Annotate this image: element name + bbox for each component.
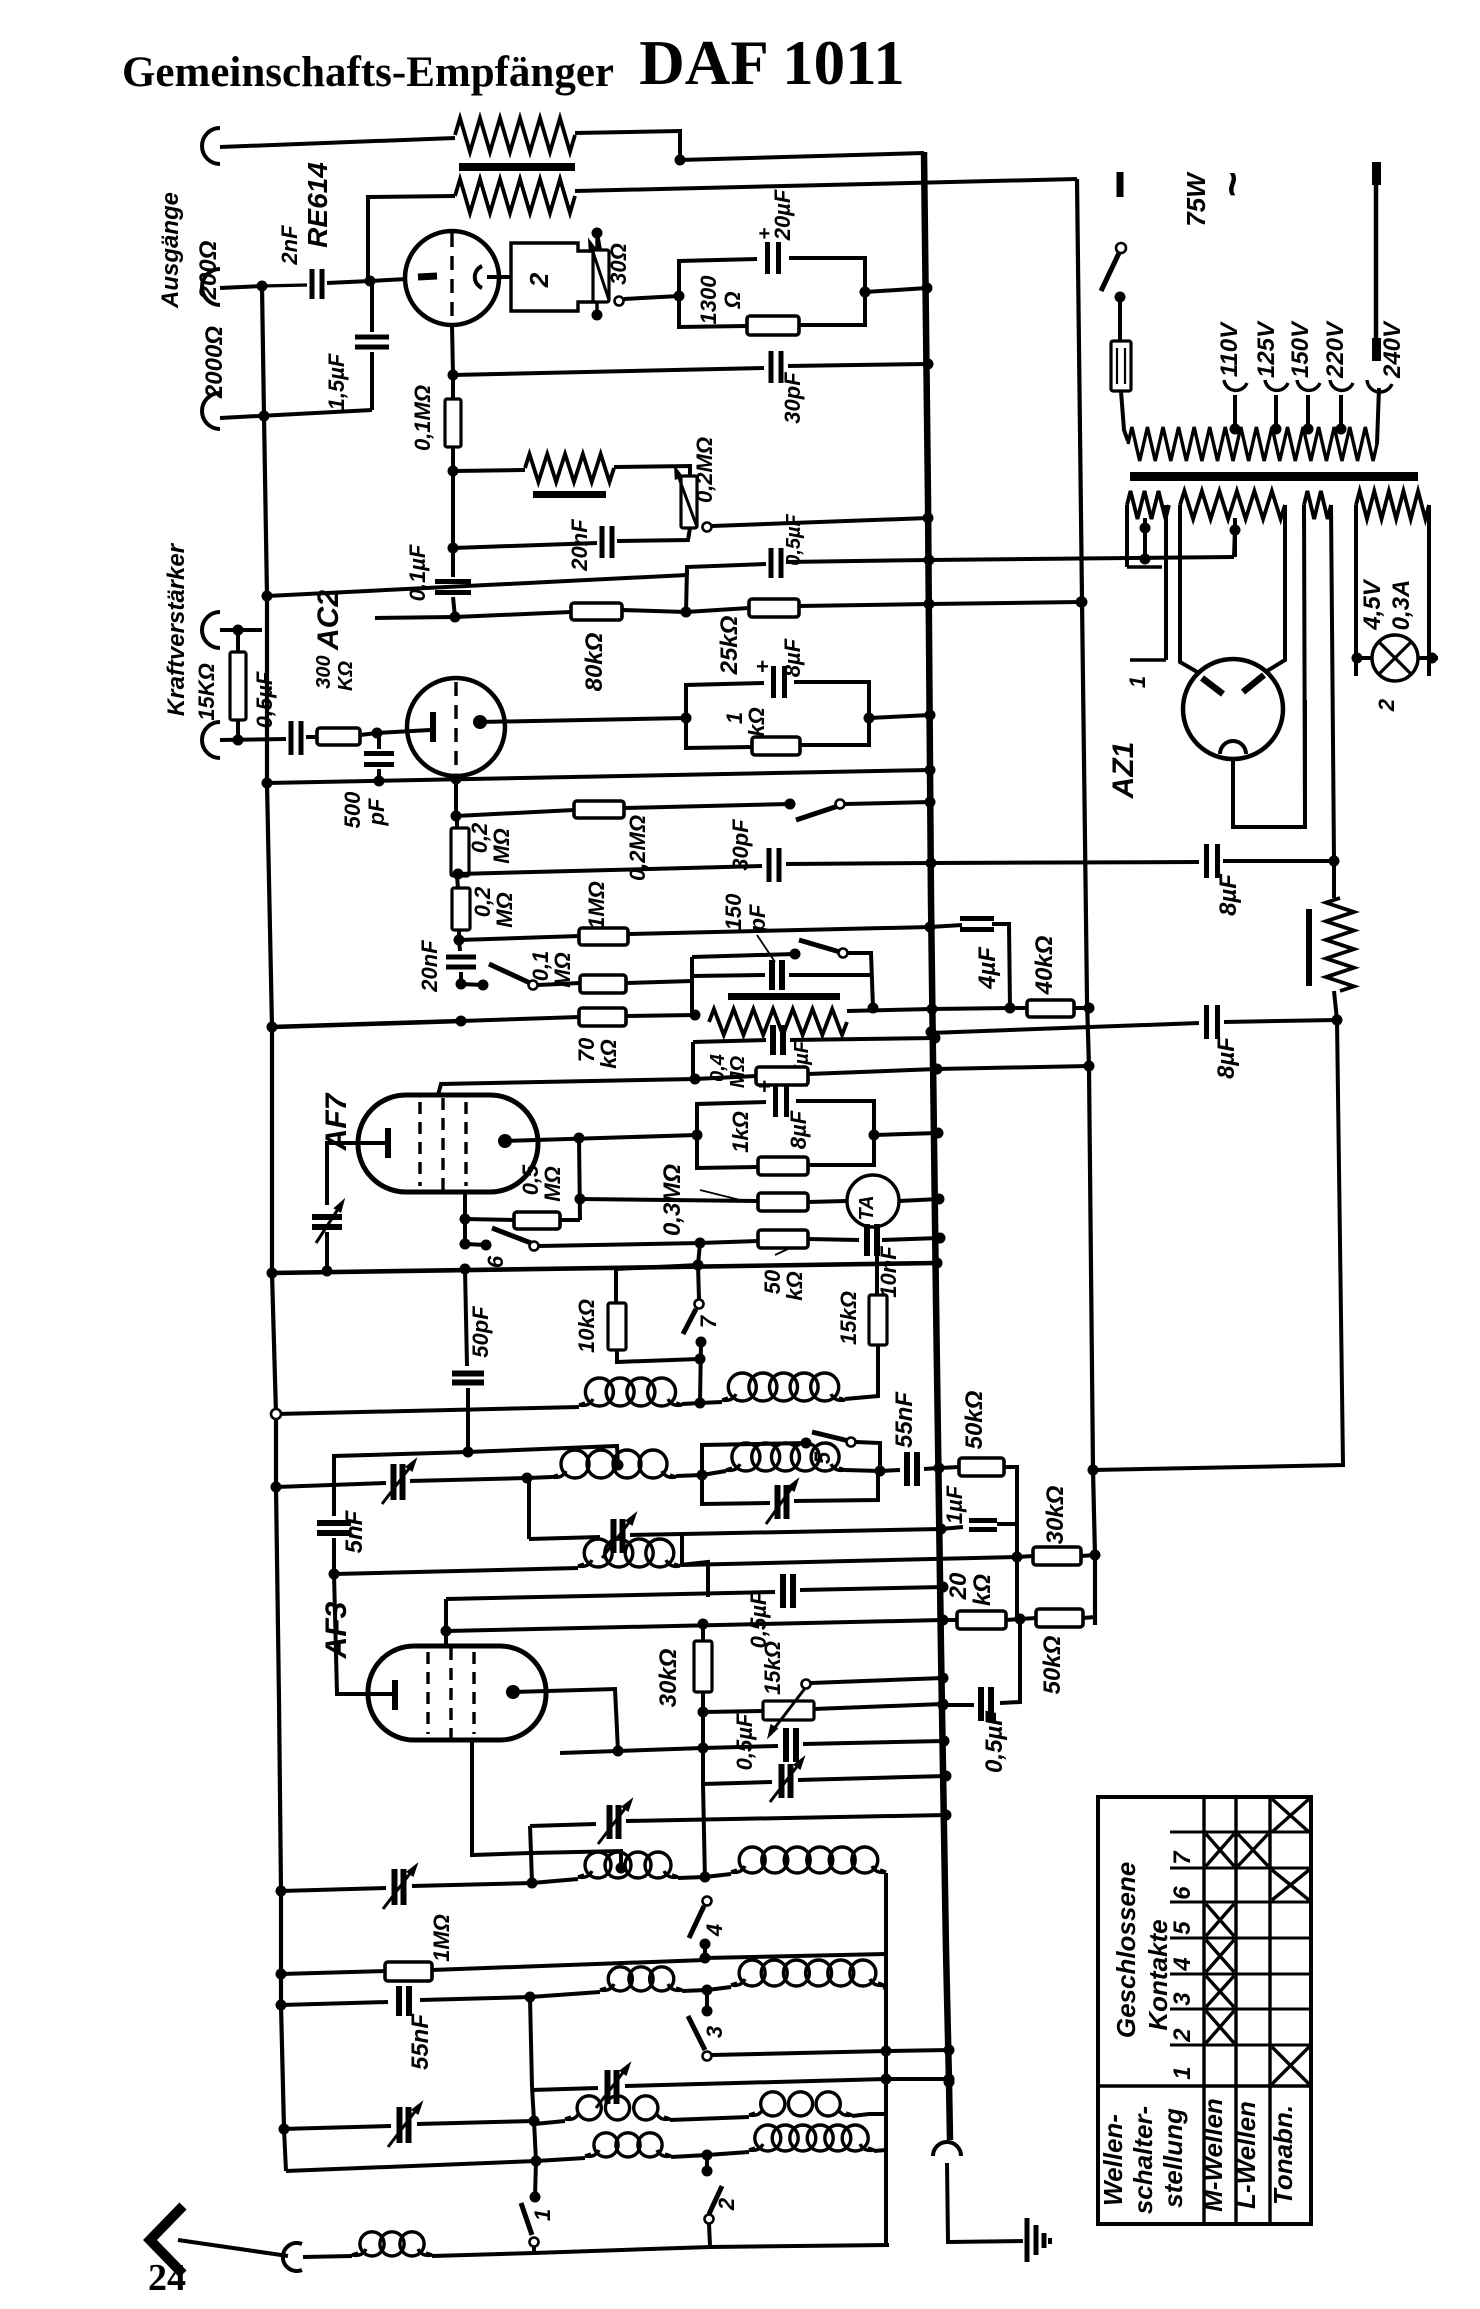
- svg-text:220V: 220V: [1322, 320, 1349, 379]
- pot 15k arrow: [770, 1687, 806, 1734]
- resistor 1kΩ AF7: [758, 1157, 808, 1175]
- svg-text:1,5µF: 1,5µF: [324, 353, 349, 410]
- svg-text:4: 4: [1169, 1957, 1196, 1971]
- coil IF A: [579, 1399, 593, 1405]
- svg-text:kΩ: kΩ: [744, 707, 769, 736]
- junction bus line4: [938, 1615, 949, 1626]
- wire cathode rail AC2: [267, 770, 930, 783]
- wire anode drop v580: [579, 1138, 580, 1220]
- svg-text:1MΩ: 1MΩ: [584, 881, 609, 929]
- junction bus bottom: [944, 2077, 955, 2088]
- svg-text:~: ~: [1208, 172, 1257, 198]
- junction rail trimmer: [322, 1266, 333, 1277]
- wire ant2 node v: [532, 2087, 536, 2161]
- svg-text:0,5µF: 0,5µF: [981, 1710, 1008, 1773]
- wire 30pF2 line: [458, 866, 762, 874]
- resistor 20kΩ: [943, 1618, 957, 1622]
- AZ1 cathode notch: [1220, 741, 1246, 754]
- svg-text:1MΩ: 1MΩ: [429, 1914, 454, 1962]
- svg-text:L-Wellen: L-Wellen: [1231, 2101, 1261, 2209]
- junction anode v580: [574, 1133, 585, 1144]
- coil E2b: [705, 1874, 731, 1877]
- trimmer line 1826: [530, 1824, 596, 1826]
- junction heater tap1: [1140, 554, 1151, 565]
- wire zig to pot: [614, 466, 690, 476]
- junction bus A screen: [924, 555, 935, 566]
- svg-text:25kΩ: 25kΩ: [716, 615, 743, 675]
- resistor 0,1MΩ vertical: [451, 375, 455, 399]
- resistor zigzag AVC: [709, 1009, 847, 1035]
- coil IF B2: [726, 1464, 740, 1470]
- switch 1 contact: [530, 2192, 541, 2203]
- table row line 4: [1170, 1937, 1311, 1940]
- junction 50k left: [695, 1238, 706, 1249]
- svg-text:20nF: 20nF: [567, 519, 592, 572]
- secondary HV winding: [1180, 491, 1285, 519]
- wire loop to bus: [869, 715, 930, 718]
- table divider labels/grid vertical: [1202, 1797, 1205, 2224]
- lamp bar left: [1352, 656, 1372, 660]
- RE614 anode bump: [475, 266, 482, 288]
- AF7 anode dot: [498, 1134, 512, 1148]
- potentiometer 30Ω body: [593, 250, 609, 302]
- junction sw7 bottom: [700, 1342, 701, 1403]
- coil F3: [534, 2121, 565, 2124]
- capacitor 20nF 2: [459, 940, 460, 951]
- tap 220V: [1336, 424, 1347, 435]
- arc 240V: [1367, 380, 1392, 392]
- svg-text:50pF: 50pF: [468, 1306, 493, 1358]
- AF7 grid dashed 3: [464, 1102, 467, 1186]
- label 50 kΩ pointer: [775, 1248, 790, 1255]
- wire AF3 g3 drop: [472, 1740, 531, 1855]
- junction 5nF bottom: [329, 1569, 340, 1580]
- wire 150 loop right: [848, 953, 873, 1008]
- wire AF7 grid3 drop: [463, 1192, 467, 1244]
- junction coilD tap: [616, 1863, 627, 1874]
- resistor 10kΩ loop: [616, 1265, 698, 1303]
- svg-text:500: 500: [340, 791, 365, 828]
- junction coil row1 tap: [678, 1877, 705, 1878]
- junction bus 1k loop: [925, 710, 936, 721]
- capacitor 20nF: [600, 526, 605, 558]
- svg-text:schalter-: schalter-: [1128, 2106, 1158, 2214]
- junction coilB left: [522, 1473, 533, 1484]
- switch 7 circle: [695, 1300, 704, 1309]
- junction busB 0,4M: [1084, 1061, 1095, 1072]
- wire sw6 to 50k node: [539, 1243, 700, 1246]
- svg-text:RE614: RE614: [302, 162, 333, 248]
- wire AF3 anode to v616: [513, 1689, 618, 1751]
- antenna terminal arc: [283, 2243, 302, 2271]
- trimmer AF7 cathode: [312, 1214, 342, 1220]
- pot 30Ω wiper circle: [615, 297, 624, 306]
- wire zig2 right to bus B: [575, 179, 1077, 191]
- junction bus potline: [938, 1699, 949, 1710]
- svg-text:2: 2: [714, 2197, 739, 2211]
- wire AF7 grid riser: [438, 1079, 695, 1095]
- wire bleeder to 8uF2: [1334, 991, 1337, 1020]
- wire coil2 up to 15k: [845, 1392, 878, 1399]
- junction 20nF node: [448, 543, 459, 554]
- coil F3 right: [749, 2109, 763, 2115]
- wire AF3 cathode drop: [334, 1574, 374, 1694]
- coil AF3 cathode: [334, 1568, 578, 1574]
- svg-text:150V: 150V: [1287, 320, 1314, 378]
- wire 240V to zigzag: [1377, 388, 1379, 444]
- wire wiper 15k to bus: [811, 1678, 943, 1683]
- svg-text:+: +: [758, 1074, 771, 1099]
- junction left bus 500pF: [262, 778, 273, 789]
- rail AF7 ground: [272, 1263, 937, 1273]
- wire kraft2: [220, 739, 286, 740]
- antenna coil: [303, 2256, 352, 2257]
- table X tonabn top: [1272, 1799, 1309, 1832]
- capacitor 8µF AC2: [771, 666, 776, 698]
- junction bus line 1826: [941, 1810, 952, 1821]
- svg-text:+: +: [756, 654, 769, 679]
- junction row4 left: [531, 2156, 542, 2167]
- svg-text:20µF: 20µF: [770, 189, 795, 241]
- junction v466 1219: [460, 1214, 471, 1225]
- svg-text:1: 1: [530, 2209, 555, 2221]
- coil D: [532, 1879, 578, 1883]
- coil E: [530, 1992, 600, 1997]
- wire to zigzag 0,2M: [453, 470, 525, 471]
- switch 3 contact: [702, 2006, 713, 2017]
- svg-text:0,5µF: 0,5µF: [746, 1591, 771, 1648]
- wire sw5 right: [856, 1442, 880, 1472]
- svg-text:10nF: 10nF: [876, 1246, 901, 1298]
- wire AC2 bottom lead: [454, 776, 458, 816]
- AC2 cathode bar: [430, 712, 436, 742]
- switch 4 circle: [703, 1897, 712, 1906]
- svg-text:8µF: 8µF: [786, 1110, 811, 1149]
- capacitor 0,5µF anode: [783, 1728, 789, 1762]
- junction zig AVC right: [868, 1003, 879, 1014]
- capacitor 0,5µF screen: [687, 564, 766, 575]
- junction 1k loop right: [864, 713, 875, 724]
- resistor 15kΩ vertical: [875, 1256, 879, 1295]
- AF7 grid dashed 2: [441, 1098, 444, 1190]
- svg-text:MΩ: MΩ: [540, 1166, 565, 1202]
- svg-text:30kΩ: 30kΩ: [1042, 1485, 1069, 1544]
- junction rail v466: [460, 1264, 471, 1275]
- wire zig2 left corner down: [368, 196, 455, 281]
- junction bus sw3: [944, 2045, 955, 2056]
- svg-text:2: 2: [524, 272, 554, 288]
- capacitor 8µF AF7: [773, 1085, 778, 1117]
- capacitor 0,1µF: [451, 471, 455, 548]
- tube AC2 envelope: [407, 678, 505, 776]
- svg-text:125V: 125V: [1253, 320, 1280, 378]
- tap 150V: [1303, 424, 1314, 435]
- lamp bar right: [1418, 656, 1438, 660]
- junction bus 1M: [925, 922, 936, 933]
- wire TA to bus: [899, 1199, 939, 1201]
- switch circle tone: [836, 800, 845, 809]
- resistor 25kΩ: [686, 608, 749, 612]
- switch 4 blade: [689, 1906, 704, 1938]
- resistor heater bottom zigzag: [455, 179, 575, 213]
- wire to bus A top: [680, 153, 924, 160]
- pot 30Ω arrow: [590, 243, 609, 300]
- wire grid node to tube: [370, 279, 407, 281]
- bleeder core bar: [1306, 909, 1312, 986]
- junction left bus rowA: [271, 1409, 281, 1419]
- svg-text:DAF 1011: DAF 1011: [639, 28, 904, 98]
- trimmer AF3 anode line: [527, 1479, 531, 1539]
- coil IF B: [552, 1471, 566, 1477]
- trimmer line 2090: [532, 2088, 598, 2090]
- resistor 50kΩ IF: [939, 1467, 959, 1468]
- table row line 5: [1170, 1973, 1311, 1976]
- wire terminal2 to node: [220, 286, 262, 288]
- junction anode line1: [613, 1746, 624, 1757]
- table X M 3: [1206, 1976, 1234, 2007]
- table row line 1: [1170, 1831, 1311, 1834]
- junction anode-bottom: [448, 370, 459, 381]
- switch 3 blade: [688, 2016, 705, 2050]
- capacitor 0,5µF line3: [780, 1574, 786, 1608]
- svg-text:0,5µF: 0,5µF: [252, 671, 277, 728]
- svg-text:2000Ω: 2000Ω: [201, 326, 228, 399]
- tube AZ1 envelope: [1183, 659, 1283, 759]
- wire loop2 to bus: [874, 1133, 938, 1135]
- junction busB return: [1088, 1465, 1099, 1476]
- trimmer antenna 2 line: [281, 2126, 391, 2129]
- pot 0,2M wiper circle: [703, 523, 712, 532]
- junction bus line3: [938, 1582, 949, 1593]
- pickup TA circle: [847, 1175, 899, 1227]
- capacitor 30pF: [769, 351, 774, 383]
- coil G: [707, 2152, 749, 2155]
- table X L 7: [1238, 1834, 1268, 1866]
- switch 150 contact: [790, 949, 801, 960]
- junction box2 top: [592, 228, 603, 239]
- junction line4 grid: [441, 1626, 452, 1637]
- table X M 4: [1206, 1940, 1234, 1972]
- resistor 50kΩ 2: [1020, 1618, 1036, 1619]
- junction left bus tun1: [271, 1482, 282, 1493]
- AZ1 anode lead right: [1267, 650, 1285, 671]
- resistor 0,2MΩ horizontal: [456, 810, 574, 816]
- tube RE614 envelope: [405, 231, 499, 325]
- junction rowA right: [695, 1398, 706, 1409]
- svg-text:2: 2: [1169, 2028, 1196, 2043]
- wire zig1 to corner: [575, 131, 680, 160]
- wire to AC2 cathode: [377, 730, 430, 733]
- resistor 0,5MΩ: [465, 1219, 514, 1220]
- junction 30k2 left: [1012, 1552, 1023, 1563]
- mains lead 240V: [1374, 168, 1379, 360]
- wire 15uF line: [693, 1040, 766, 1042]
- junction v886 line2090: [881, 2074, 892, 2085]
- AZ1 cathode loop: [1233, 700, 1305, 827]
- wire kraft1: [220, 628, 262, 632]
- junction 500pF bottom: [374, 776, 385, 787]
- table main horizontal divider: [1098, 2084, 1311, 2087]
- junction bus rail: [932, 1258, 943, 1269]
- switch 7 contact: [696, 1337, 707, 1348]
- junction coilB tap: [613, 1460, 624, 1471]
- table row line 2: [1170, 1867, 1311, 1870]
- junction 1k2 right: [869, 1130, 880, 1141]
- wire v1017: [1015, 1524, 1019, 1619]
- table X M 5: [1206, 1904, 1234, 1936]
- coil E3: [536, 2158, 585, 2161]
- svg-text:6: 6: [483, 1255, 508, 1268]
- wire row4 line: [286, 2161, 536, 2171]
- wire AF7 anode line: [505, 1135, 697, 1141]
- wire 5nF top: [334, 1452, 468, 1516]
- wire terminal1 to R heiz: [220, 138, 455, 147]
- switch 1a circle: [529, 981, 538, 990]
- wire RE614 bottom: [452, 325, 453, 375]
- svg-text:150: 150: [721, 893, 746, 930]
- junction left bus top: [257, 281, 268, 292]
- capacitor 2nF: [262, 285, 307, 286]
- svg-text:0,5µF: 0,5µF: [732, 1713, 757, 1770]
- capacitor 30pF 2: [767, 848, 772, 882]
- switch 150 blade: [799, 940, 840, 952]
- junction AC2 grid node: [372, 728, 383, 739]
- switch 5 contact: [801, 1438, 812, 1449]
- junction bus-left terminal3: [259, 411, 270, 422]
- pot 15k wiper circle: [802, 1680, 811, 1689]
- svg-text:30pF: 30pF: [780, 372, 805, 424]
- mains switch blade: [1101, 253, 1119, 291]
- junction 30pF2 node: [453, 869, 464, 880]
- switch 6 blade: [492, 1228, 531, 1243]
- junction line 1958: [700, 1953, 711, 1964]
- label 0,3MΩ pointer: [700, 1190, 740, 1200]
- junction left bus screen: [262, 591, 273, 602]
- mains switch stub: [1117, 172, 1124, 197]
- svg-text:30kΩ: 30kΩ: [655, 1648, 682, 1707]
- capacitor 8µF smoothing 2: [930, 1023, 1199, 1033]
- secondary winding 3: [1304, 491, 1331, 519]
- wire 1300 to bus A: [865, 288, 927, 292]
- junction bus rail780: [925, 765, 936, 776]
- table divider L column: [1268, 1797, 1271, 2224]
- switch 1 blade: [521, 2203, 532, 2235]
- svg-text:kΩ: kΩ: [596, 1039, 621, 1068]
- svg-text:AF3: AF3: [320, 1601, 353, 1659]
- arc 125V: [1265, 380, 1288, 390]
- resistor 1MΩ: [459, 936, 579, 940]
- wire 20nF line: [453, 543, 597, 548]
- resistor 15KΩ vertical: [230, 652, 246, 720]
- AF3 grid dashed 2: [449, 1648, 452, 1738]
- table X M 2: [1206, 2011, 1234, 2043]
- junction trimmer1 right: [527, 1878, 538, 1889]
- svg-text:300: 300: [313, 655, 335, 688]
- junction bus A y288: [922, 283, 933, 294]
- AF3 cathode lead: [374, 1692, 395, 1696]
- resistor 30kΩ 2: [1017, 1556, 1033, 1557]
- switch 1a contact: [461, 984, 483, 985]
- svg-text:stellung: stellung: [1158, 2108, 1188, 2208]
- switch 6 contact: [465, 1244, 486, 1245]
- pilot lamp circle: [1372, 635, 1418, 681]
- junction coilB right: [697, 1470, 708, 1481]
- junction 8uF2: [1332, 1015, 1343, 1026]
- junction left bus 1M2: [276, 1969, 287, 1980]
- wire 25k to bus B: [929, 602, 1081, 604]
- wire line1 0,5uF: [560, 1751, 618, 1753]
- terminal output 1: [202, 128, 220, 164]
- trimmer padder B: [702, 1475, 770, 1504]
- wire v531 55n to ant node: [530, 1997, 532, 2087]
- wire coilE2b right drop: [884, 1873, 888, 2245]
- svg-text:AC2: AC2: [312, 590, 345, 651]
- junction bus 55nF: [934, 1463, 945, 1474]
- table row line 3: [1170, 1901, 1311, 1904]
- tap 125V: [1271, 424, 1282, 435]
- svg-text:Wellen-: Wellen-: [1098, 2114, 1128, 2206]
- wire screen feed from left bus: [267, 575, 687, 596]
- switch 2 circle: [705, 2215, 714, 2224]
- wire 1uF line: [682, 1529, 941, 1534]
- junction bus 10nF: [935, 1233, 946, 1244]
- resistor 0,3MΩ: [580, 1199, 758, 1201]
- svg-text:0,4: 0,4: [707, 1054, 729, 1082]
- bus main HT vertical: [924, 152, 950, 2140]
- junction HT right top: [1329, 856, 1340, 867]
- svg-text:15kΩ: 15kΩ: [760, 1641, 785, 1695]
- wire HT return: [1093, 1020, 1343, 1470]
- svg-text:Ω: Ω: [720, 291, 745, 309]
- svg-text:24: 24: [148, 2257, 186, 2299]
- svg-text:M-Wellen: M-Wellen: [1198, 2098, 1228, 2212]
- junction left bus ant2: [279, 2124, 290, 2135]
- junction bus 30pF2: [926, 858, 937, 869]
- capacitor 4µF: [930, 925, 962, 927]
- core bar between heater resistors: [459, 163, 575, 171]
- resistor 30kΩ 1 vertical: [701, 1624, 705, 1641]
- svg-text:8µF: 8µF: [1213, 1036, 1240, 1079]
- RE614 grid dashed: [450, 233, 453, 326]
- wire 50pF tap line: [468, 1446, 618, 1465]
- AF7 cathode lead: [327, 1143, 388, 1205]
- svg-text:1µF: 1µF: [942, 1485, 967, 1524]
- table Wellenschalter outer: [1098, 1797, 1311, 2224]
- svg-text:20nF: 20nF: [417, 940, 442, 993]
- wire tone switch to bus: [845, 802, 930, 804]
- wire rail to sw7 circle: [698, 1265, 699, 1299]
- resistor 70kΩ: [461, 1017, 579, 1021]
- wire tap2 riser: [1234, 528, 1235, 557]
- capacitor 50pF: [465, 1269, 467, 1366]
- terminal kraft 1: [202, 612, 220, 648]
- table divider M column: [1234, 1797, 1237, 2224]
- wire tap coil D: [531, 1851, 621, 1868]
- svg-text:Geschlossene: Geschlossene: [1111, 1862, 1141, 2038]
- wire v703 down: [703, 1712, 705, 1881]
- resistor 1MΩ 2: [385, 1962, 432, 1981]
- switch blade tone: [796, 806, 838, 820]
- junction bus wiper15k: [938, 1673, 949, 1684]
- loop 1kΩ 8µF AC2: [686, 683, 764, 718]
- junction 20nF2 bottom: [456, 979, 467, 990]
- junction left bus 55n2: [276, 2000, 287, 2011]
- svg-text:Gemeinschafts-Empfänger: Gemeinschafts-Empfänger: [122, 49, 614, 96]
- junction bus 0,5uF right: [938, 1700, 949, 1711]
- svg-text:2nF: 2nF: [277, 225, 302, 266]
- junction sw6 left: [460, 1239, 471, 1250]
- capacitor 20µF: [765, 242, 770, 274]
